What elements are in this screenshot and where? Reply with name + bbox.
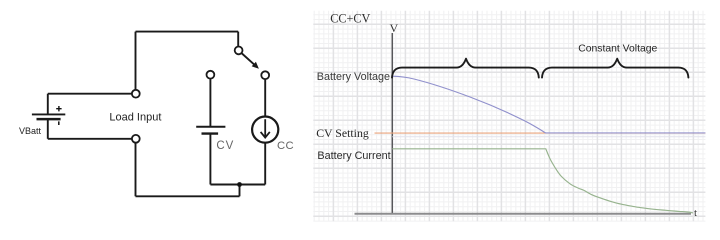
svg-text:VBatt: VBatt bbox=[19, 126, 42, 136]
svg-text:t: t bbox=[694, 207, 697, 219]
svg-text:V: V bbox=[390, 21, 399, 35]
svg-text:Constant Voltage: Constant Voltage bbox=[578, 44, 657, 55]
svg-text:CV Setting: CV Setting bbox=[316, 126, 369, 140]
svg-text:CV: CV bbox=[216, 140, 234, 152]
svg-text:CC+CV: CC+CV bbox=[330, 12, 370, 26]
svg-text:Battery Current: Battery Current bbox=[317, 150, 390, 162]
svg-text:Load Input: Load Input bbox=[109, 111, 161, 123]
svg-text:Battery Voltage: Battery Voltage bbox=[317, 71, 390, 83]
svg-text:CC: CC bbox=[277, 140, 294, 152]
